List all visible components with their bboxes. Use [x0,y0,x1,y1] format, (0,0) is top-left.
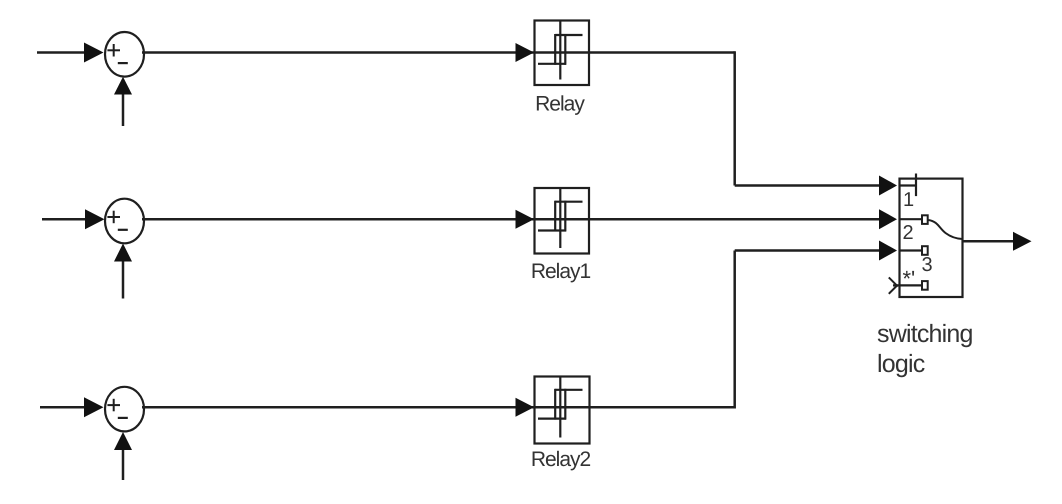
wire row3 sum through Relay2 to corner [142,406,735,409]
port 2 contact [922,215,928,224]
wire switch output [963,240,1016,243]
arrowhead row2 feedback into sum S2 [114,244,132,262]
arrowhead row1 into sum S1 [84,43,104,63]
port 3 contact [922,246,928,255]
svg-text:1: 1 [903,189,914,211]
arrowhead output [1013,232,1032,251]
relay block Relay1 [535,188,590,254]
sum block S2 [105,199,144,244]
wire row3 corner up [733,251,736,409]
svg-text:Relay1: Relay1 [531,260,591,283]
arrowhead row3 feedback into sum S3 [114,432,132,450]
svg-text:*': *' [903,266,916,291]
sum block S3 [105,387,144,432]
wire row3 input [40,406,86,409]
relay block Relay [535,21,590,86]
arrowhead row1 feedback into sum S1 [114,77,132,95]
port 4 (control) line [893,284,922,286]
wire row2 feedback (bottom) [122,260,125,299]
arrowhead row2 into Relay1 [516,210,535,229]
port 1 line [900,184,917,186]
arrowhead row2 into sum S2 [85,209,105,229]
wire row1 sum to Relay and through to corner [142,51,735,54]
svg-text:Relay2: Relay2 [531,448,591,471]
svg-text:logic: logic [877,350,925,378]
wire row2 sum through Relay1 to switch port 2 [142,218,881,221]
sum block S1 [105,32,144,77]
switch arm [929,220,963,239]
wire row1 to switch port 1 [735,184,881,187]
wire row2 input [42,218,87,221]
port 3 line [900,249,923,251]
arrowhead row3 into Relay2 [516,398,535,417]
port 4 contact [922,281,928,290]
arrowhead into switch port 1 [879,176,897,196]
wire row1 feedback (bottom) [122,93,125,126]
switch block "switching logic" [889,174,963,298]
svg-text:Relay: Relay [535,93,585,116]
arrowhead row1 into Relay [516,43,535,62]
arrowhead into switch port 2 [879,209,897,229]
wire row1 corner down [733,51,736,185]
wire row1 input [37,51,86,54]
svg-text:switching: switching [877,320,973,348]
port 2 line [900,218,923,220]
svg-text:2: 2 [903,222,914,244]
unconnected port mark [889,277,898,286]
relay block Relay2 [535,377,590,444]
wire row3 to switch port 3 [735,249,881,252]
svg-text:3: 3 [922,254,933,276]
wire row3 feedback (bottom) [122,449,125,481]
port 1 tick bar [915,174,917,197]
arrowhead row3 into sum S3 [84,397,104,417]
arrowhead into switch port 3 [879,241,897,261]
